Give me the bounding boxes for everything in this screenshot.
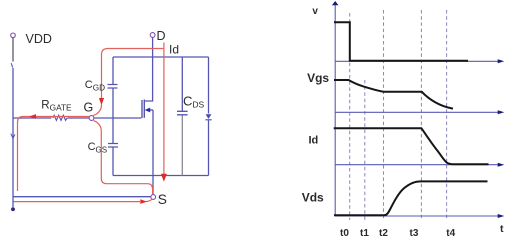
svg-text:t0: t0 [340,228,349,239]
svg-text:t: t [500,223,504,235]
svg-text:t1: t1 [360,228,369,239]
svg-text:v: v [312,6,318,17]
svg-text:t4: t4 [446,228,455,239]
svg-text:Id: Id [309,134,319,146]
svg-text:G: G [84,100,94,114]
svg-text:S: S [158,192,167,207]
svg-text:t2: t2 [379,228,388,239]
svg-text:t3: t3 [410,228,419,239]
svg-text:Id: Id [169,42,179,56]
svg-text:Vds: Vds [302,191,324,205]
svg-text:Vgs: Vgs [307,71,329,85]
svg-text:VDD: VDD [26,32,52,46]
svg-text:D: D [157,29,166,43]
